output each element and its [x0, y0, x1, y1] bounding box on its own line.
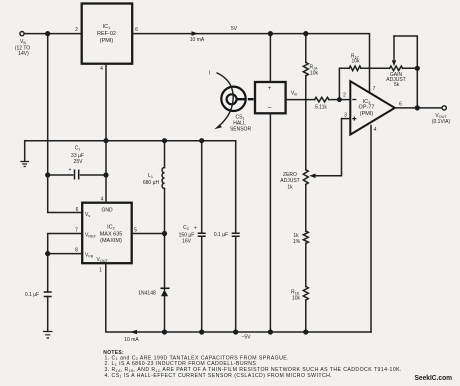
junction VREF/VFB	[45, 251, 50, 256]
svg-text:(PMI): (PMI)	[360, 111, 374, 117]
junction ground rail / C2	[199, 138, 204, 143]
junction op-amp pin2 node	[337, 97, 342, 102]
svg-text:16V: 16V	[182, 239, 192, 245]
wire Vin (box to 5.11k)	[286, 99, 315, 101]
svg-text:5V: 5V	[231, 26, 238, 32]
svg-text:I: I	[209, 71, 210, 77]
wire current arrow 10 mA bottom	[130, 330, 137, 335]
svg-text:1%: 1%	[293, 239, 301, 245]
svg-text:(0.1V/A): (0.1V/A)	[432, 119, 451, 125]
svg-text:OP-77: OP-77	[359, 104, 375, 110]
svg-text:SeekIC.com: SeekIC.com	[415, 373, 453, 382]
svg-text:+: +	[194, 226, 197, 232]
capacitor 0.1uF right	[235, 141, 237, 234]
hall sensor CS1 inner ring	[227, 94, 237, 104]
terminal VB input	[20, 31, 24, 35]
wire pin2	[339, 99, 350, 101]
op-amp IC3 OP-77	[350, 81, 395, 134]
junction diode / -5V rail	[162, 329, 167, 334]
svg-text:SENSOR: SENSOR	[230, 127, 252, 133]
svg-text:GND: GND	[102, 208, 114, 214]
junction C1 left	[45, 172, 50, 177]
svg-text:0.1 µF: 0.1 µF	[214, 232, 228, 238]
svg-text:1N4148: 1N4148	[138, 291, 156, 297]
svg-text:2: 2	[75, 27, 78, 33]
junction R1B / -5V rail	[303, 329, 308, 334]
wire 5V top rail right (IC1 pin6 to op-amp pin7 corner)	[132, 34, 369, 92]
junction L1 / pin5	[162, 231, 167, 236]
svg-text:REF-02: REF-02	[97, 31, 116, 37]
resistor 5.11k	[315, 97, 329, 102]
junction 5V rail / box	[268, 31, 273, 36]
wire R1C to gain pot	[361, 67, 390, 69]
ground symbol top-left	[24, 141, 26, 161]
svg-text:−: −	[267, 105, 271, 112]
svg-text:2: 2	[343, 93, 346, 99]
svg-text:3: 3	[344, 113, 347, 119]
svg-text:+: +	[268, 86, 272, 92]
svg-text:+: +	[69, 167, 72, 173]
wire box + to 5V rail	[269, 34, 271, 82]
wire MAX pin7 VREF	[48, 234, 82, 254]
svg-text:4: 4	[101, 197, 104, 203]
svg-text:6: 6	[135, 27, 138, 33]
svg-text:25V: 25V	[74, 159, 84, 165]
junction C2 / -5V rail	[199, 329, 204, 334]
svg-text:(MAXIM): (MAXIM)	[100, 238, 122, 244]
wiper arrow zero adjust	[309, 174, 315, 179]
svg-text:5k: 5k	[394, 82, 400, 88]
wire MAX pin1 down to -5V rail	[106, 263, 371, 332]
hall amplifier box	[255, 82, 286, 113]
junction 0.1uF / -5V rail	[233, 329, 238, 334]
wire pin3	[342, 118, 351, 120]
svg-text:(PMI): (PMI)	[100, 38, 114, 44]
IC1 REF-02 box	[82, 4, 133, 64]
wire MAX pin8 VFB	[48, 253, 82, 255]
svg-text:10k: 10k	[310, 71, 319, 77]
ground symbol bottom-left	[43, 332, 52, 339]
capacitor C1 33uF 25V	[48, 174, 106, 176]
junction output node	[415, 105, 420, 110]
ground rail wire	[25, 140, 236, 142]
wiper arrow gain adjust	[393, 36, 395, 60]
svg-text:10 mA: 10 mA	[190, 37, 205, 43]
svg-text:0.1 µF: 0.1 µF	[25, 292, 39, 298]
resistor 1k 1%	[303, 231, 308, 243]
junction 5V rail / R1A	[303, 31, 308, 36]
diode 1N4148	[164, 234, 166, 290]
svg-text:680 µH: 680 µH	[143, 180, 160, 186]
inductor L1 680uH	[164, 141, 166, 168]
wire IC1 pin4 down to ground rail and MAX635 pin4	[105, 64, 107, 203]
wire R1A to zero-adjust pot (crosses Vin wire)	[305, 76, 307, 170]
junction -5V rail / box	[268, 329, 273, 334]
MAX635 box IC2	[82, 203, 132, 264]
svg-text:7: 7	[373, 86, 376, 92]
wire R1B to -5V rail	[305, 300, 307, 332]
junction ground rail / L1	[162, 138, 167, 143]
svg-text:10k: 10k	[351, 59, 360, 65]
svg-text:IC2: IC2	[107, 225, 116, 231]
svg-text:4: 4	[100, 66, 103, 72]
svg-text:4: 4	[374, 127, 377, 133]
wire 5V top rail left (VB to IC1 pin2)	[24, 33, 81, 35]
wire pot to 1k	[305, 184, 307, 231]
wire op-amp output	[395, 107, 442, 109]
svg-text:5: 5	[134, 228, 137, 234]
feedback wire pin2 up	[339, 68, 349, 99]
wire box - to -5V rail	[269, 113, 271, 332]
link sensor to box	[237, 98, 254, 100]
svg-text:1: 1	[99, 268, 102, 274]
junction gain pot right	[415, 66, 420, 71]
svg-text:1k: 1k	[287, 185, 293, 191]
svg-text:14V): 14V)	[18, 51, 29, 57]
wire current arrow 10 mA top	[192, 31, 199, 36]
svg-text:10 mA: 10 mA	[124, 337, 139, 343]
svg-text:8: 8	[75, 248, 78, 254]
svg-text:6: 6	[76, 207, 79, 213]
svg-text:MAX 635: MAX 635	[100, 232, 123, 238]
svg-text:5.11k: 5.11k	[315, 105, 327, 111]
resistor R1A 10k	[303, 62, 308, 75]
resistor R1C 10k feedback	[349, 66, 361, 71]
hall sensor CS1 outer ring	[221, 87, 245, 111]
wire MAX pin5 to L1	[132, 233, 165, 235]
wire pin4 to -5V rail	[370, 126, 372, 333]
junction C1 right	[103, 172, 108, 177]
wire VB vertical down to MAX635 pin6	[48, 34, 82, 213]
potentiometer GAIN ADJUST 5k	[390, 66, 403, 71]
potentiometer ZERO ADJUST 1k	[303, 170, 308, 185]
capacitor 0.1uF left	[47, 254, 49, 292]
svg-text:6: 6	[399, 102, 402, 108]
capacitor C2 150uF 16V	[201, 141, 203, 234]
svg-text:ADJUST: ADJUST	[280, 178, 299, 184]
junction ground rail / IC1 pin4	[103, 138, 108, 143]
svg-text:IC1: IC1	[103, 24, 112, 30]
svg-text:−5V: −5V	[241, 335, 251, 341]
svg-text:4. CS1 IS A HALL-EFFECT CURREN: 4. CS1 IS A HALL-EFFECT CURRENT SENSOR (…	[105, 373, 333, 379]
svg-text:7: 7	[75, 228, 78, 234]
junction VB node	[45, 31, 50, 36]
svg-text:10k: 10k	[292, 296, 301, 302]
terminal VOUT	[442, 106, 446, 110]
wire 5V to R1A	[305, 34, 307, 63]
resistor R1B 10k	[303, 287, 308, 301]
wire gain pot loop	[394, 36, 417, 68]
wire 1k to R1B	[305, 243, 307, 286]
